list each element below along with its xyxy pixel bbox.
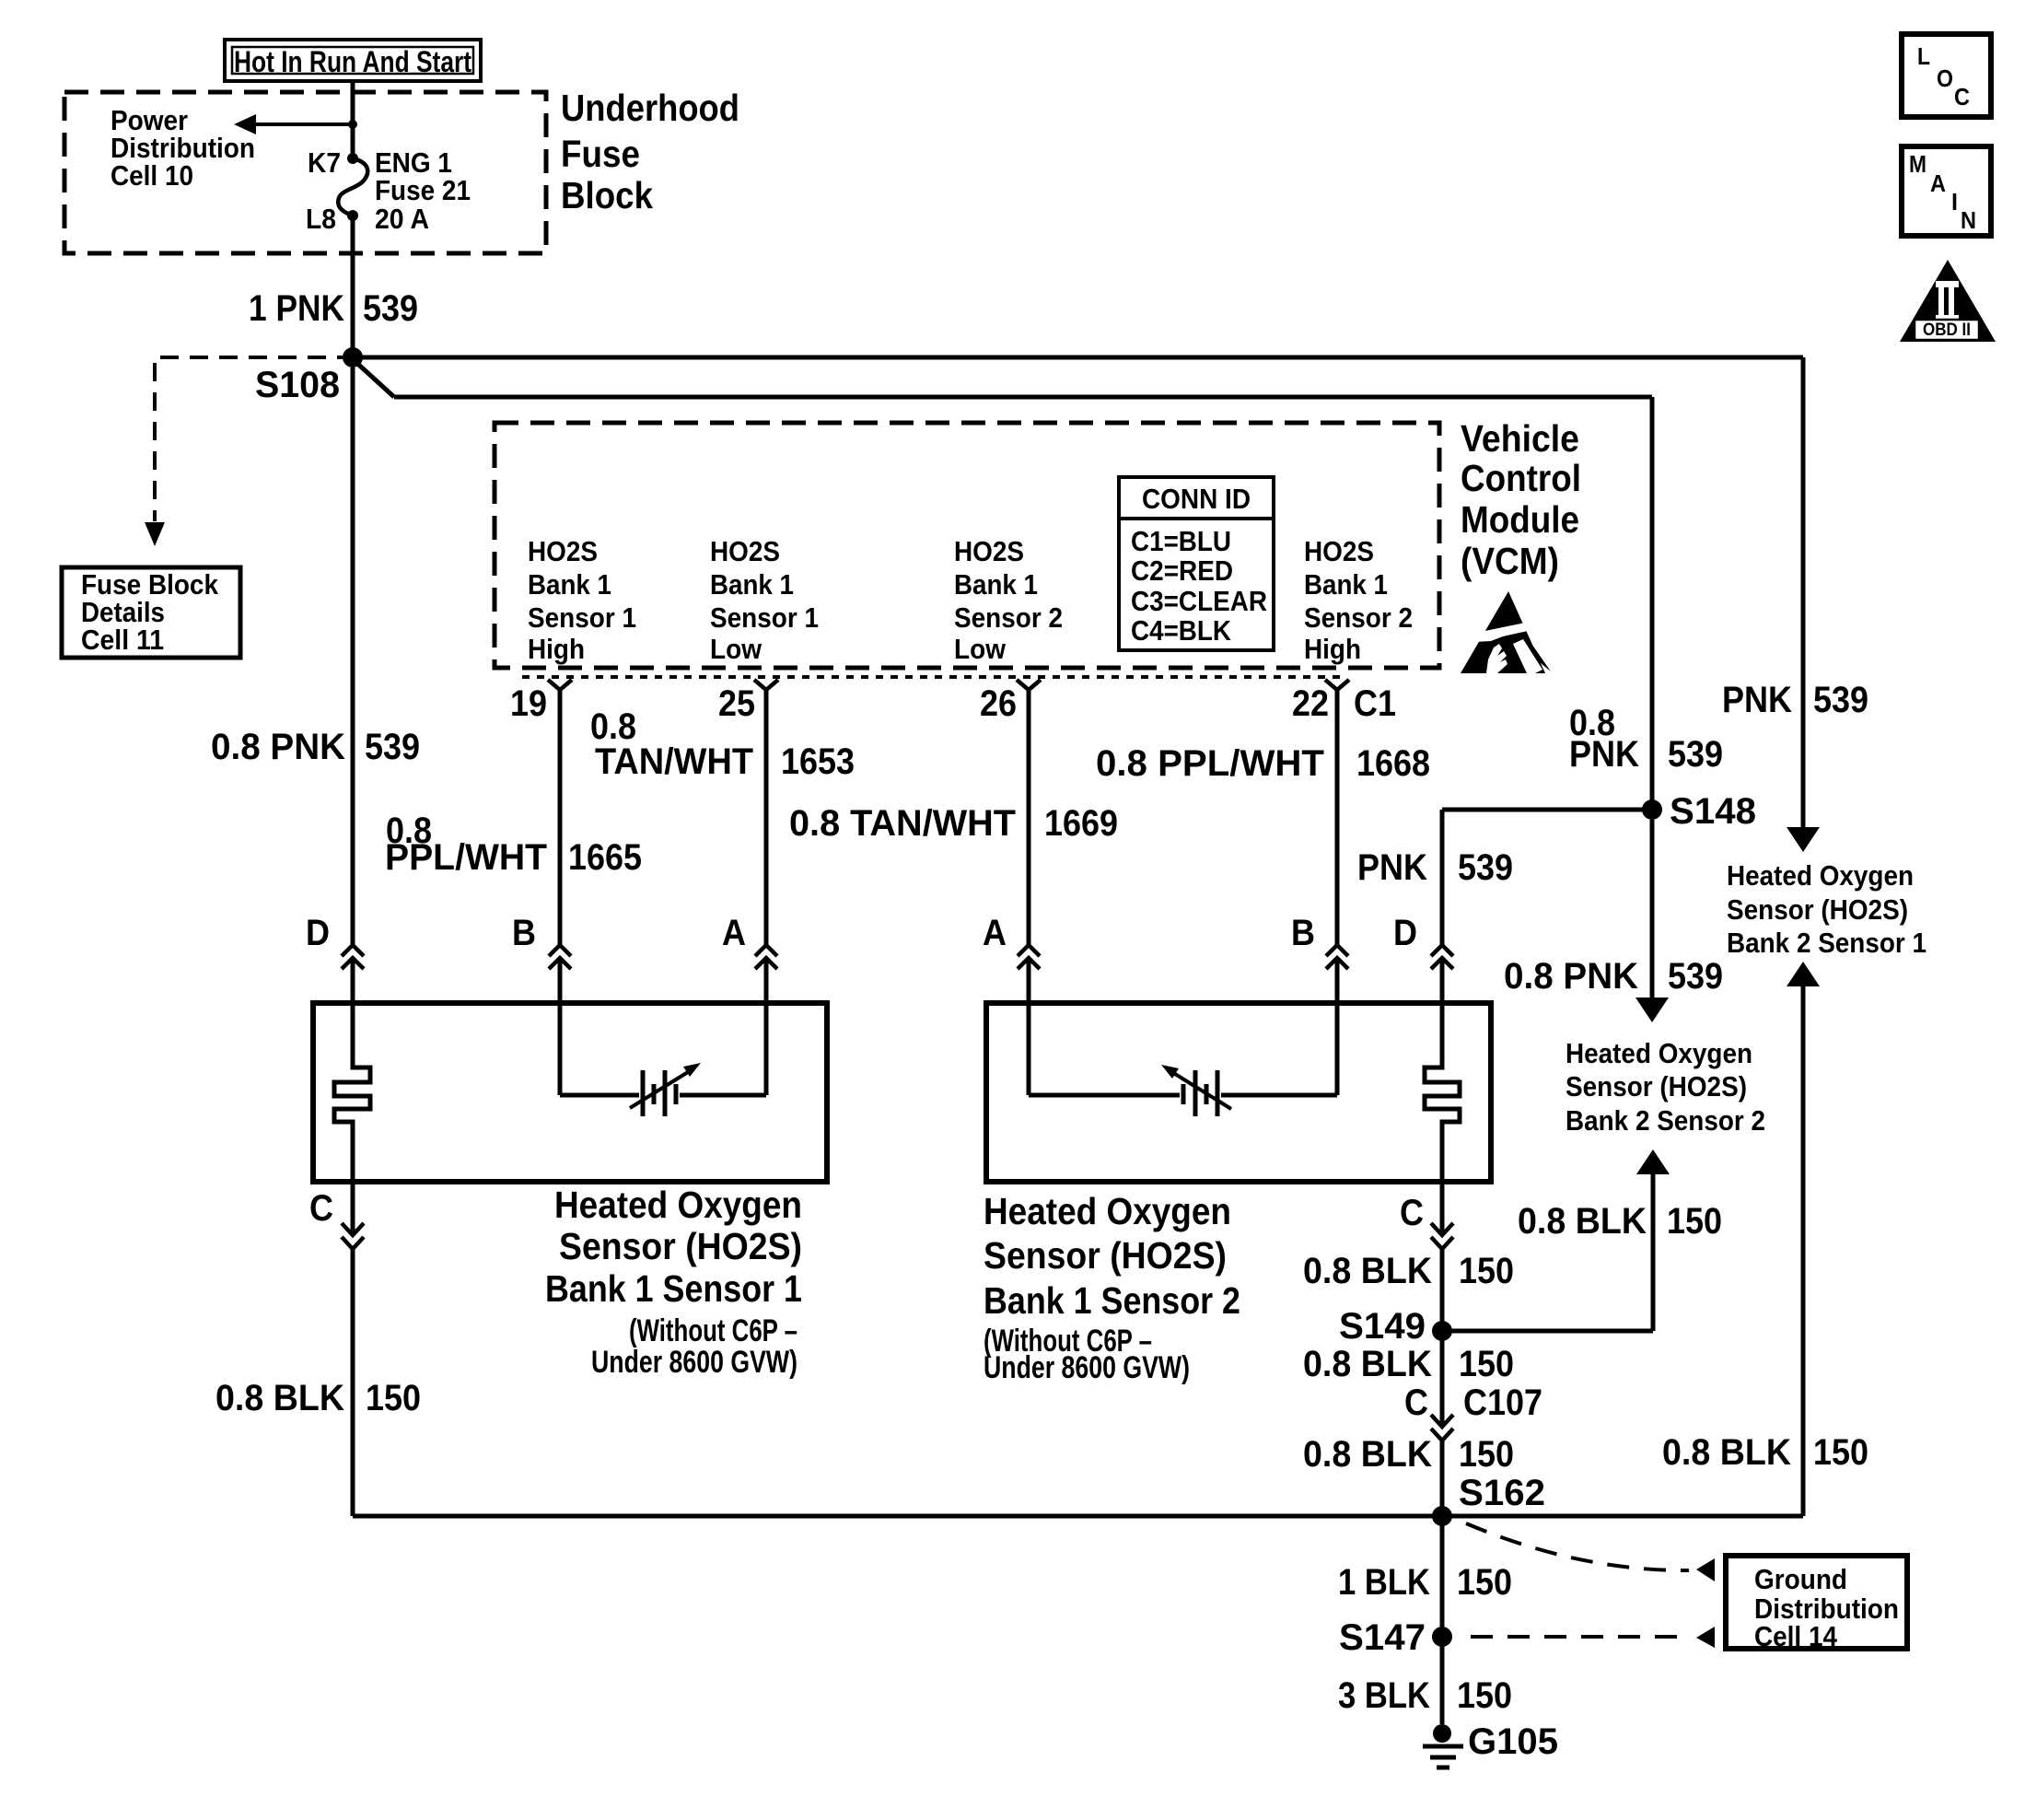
svg-text:HO2S: HO2S bbox=[710, 535, 780, 567]
svg-text:A: A bbox=[983, 913, 1007, 953]
label Underhood Fuse Block bbox=[561, 87, 739, 216]
variable arrow (sensor 2) bbox=[1161, 1065, 1231, 1109]
label 0.8 BLK 150 (bank 2 sensor 1 wire) bbox=[1662, 1432, 1868, 1473]
fuse ENG 1 Fuse 21 20 A bbox=[338, 158, 367, 216]
svg-text:Bank 1: Bank 1 bbox=[1304, 568, 1388, 601]
svg-text:539: 539 bbox=[1668, 956, 1723, 997]
svg-text:B: B bbox=[512, 913, 536, 953]
label 3 BLK 150 bbox=[1338, 1675, 1512, 1716]
label HO2S Bank 1 Sensor 2 Low bbox=[954, 535, 1063, 665]
svg-text:OBD II: OBD II bbox=[1923, 321, 1971, 340]
label 0.8 PPL/WHT 1665 bbox=[385, 811, 642, 878]
svg-text:Sensor (HO2S): Sensor (HO2S) bbox=[984, 1234, 1227, 1277]
svg-text:PPL/WHT: PPL/WHT bbox=[385, 837, 547, 878]
svg-text:A: A bbox=[1930, 169, 1946, 197]
svg-text:0.8 PNK: 0.8 PNK bbox=[211, 727, 345, 767]
label 0.8 PNK 539 (S148 wire) bbox=[1569, 703, 1723, 775]
heater element (sensor 1) bbox=[334, 958, 370, 1235]
svg-text:0.8 BLK: 0.8 BLK bbox=[1303, 1251, 1432, 1291]
svg-text:0.8 BLK: 0.8 BLK bbox=[1303, 1434, 1432, 1475]
label PNK 539 (sensor 2 pin D wire) bbox=[1357, 847, 1513, 888]
dashed leader to fuse block details bbox=[145, 357, 343, 546]
label C1 bbox=[1354, 683, 1396, 724]
arrow down to HO2S bank 2 sensor 2 bbox=[1635, 997, 1669, 1022]
wire 0.8 BLK 150 (sensor 1 ground) bbox=[351, 1249, 355, 1516]
connector pin B (sensor 1) bbox=[512, 913, 571, 969]
svg-text:PNK: PNK bbox=[1569, 734, 1639, 775]
svg-text:Bank 2 Sensor 2: Bank 2 Sensor 2 bbox=[1566, 1104, 1765, 1137]
svg-text:0.8 PPL/WHT: 0.8 PPL/WHT bbox=[1096, 743, 1324, 784]
svg-text:Heated Oxygen: Heated Oxygen bbox=[554, 1184, 802, 1226]
svg-text:Sensor (HO2S): Sensor (HO2S) bbox=[1727, 893, 1908, 926]
svg-text:3 BLK: 3 BLK bbox=[1338, 1675, 1430, 1716]
label 0.8 PPL/WHT 1668 bbox=[1096, 743, 1430, 784]
svg-text:Bank 1: Bank 1 bbox=[954, 568, 1038, 601]
svg-text:19: 19 bbox=[510, 683, 547, 724]
pin L8 bbox=[306, 203, 358, 235]
MAIN symbol bbox=[1902, 146, 1991, 236]
label 0.8 BLK 150 (below S149) bbox=[1303, 1344, 1514, 1384]
dashed leader S147 to ground distribution bbox=[1471, 1627, 1715, 1648]
svg-text:C: C bbox=[1954, 83, 1970, 111]
sense element wires (sensor 1) bbox=[560, 958, 766, 1095]
svg-text:Bank 1 Sensor 2: Bank 1 Sensor 2 bbox=[984, 1279, 1240, 1322]
svg-text:150: 150 bbox=[1813, 1432, 1868, 1473]
svg-text:539: 539 bbox=[365, 727, 420, 767]
label HO2S Bank 1 Sensor 1 High bbox=[528, 535, 636, 665]
svg-text:Cell 10: Cell 10 bbox=[111, 159, 193, 192]
wire pin 19 (0.8 PPL/WHT 1665) bbox=[558, 690, 563, 945]
svg-text:C2=RED: C2=RED bbox=[1131, 554, 1233, 587]
wire from bank 2 sensor 2 ground bbox=[1442, 1149, 1670, 1331]
label Vehicle Control Module (VCM) bbox=[1461, 417, 1581, 582]
connector pin C (sensor 1) bbox=[309, 1188, 364, 1249]
title box Hot In Run And Start bbox=[225, 40, 481, 81]
svg-text:1 PNK: 1 PNK bbox=[249, 288, 344, 329]
node S162 bbox=[1432, 1473, 1545, 1526]
svg-text:(Without C6P –: (Without C6P – bbox=[629, 1313, 797, 1348]
label 0.8 BLK 150 (left) bbox=[215, 1378, 421, 1418]
label 0.8 BLK 150 (below C107) bbox=[1303, 1434, 1514, 1475]
svg-text:C4=BLK: C4=BLK bbox=[1131, 614, 1232, 647]
connector C1 face line bbox=[522, 675, 1346, 679]
svg-text:C3=CLEAR: C3=CLEAR bbox=[1131, 585, 1267, 617]
svg-text:Hot In Run And Start: Hot In Run And Start bbox=[234, 45, 471, 78]
svg-text:(VCM): (VCM) bbox=[1461, 540, 1559, 582]
svg-text:539: 539 bbox=[363, 288, 418, 329]
svg-text:A: A bbox=[722, 913, 746, 953]
svg-text:C107: C107 bbox=[1463, 1382, 1542, 1423]
pin 25 bbox=[718, 680, 778, 724]
svg-text:CONN ID: CONN ID bbox=[1142, 483, 1251, 515]
svg-text:High: High bbox=[528, 633, 585, 665]
svg-text:Control: Control bbox=[1461, 457, 1581, 499]
pin 19 bbox=[510, 680, 572, 724]
svg-text:Module: Module bbox=[1461, 498, 1579, 541]
svg-text:PNK: PNK bbox=[1357, 847, 1427, 888]
svg-text:1669: 1669 bbox=[1044, 803, 1118, 844]
arrow down to HO2S bank 2 sensor 1 bbox=[1787, 827, 1820, 852]
bottom ground bus wire bbox=[353, 1514, 1442, 1519]
svg-text:22: 22 bbox=[1292, 683, 1329, 724]
svg-text:C: C bbox=[1400, 1193, 1424, 1233]
svg-text:Vehicle: Vehicle bbox=[1461, 417, 1579, 460]
svg-text:Under 8600 GVW): Under 8600 GVW) bbox=[984, 1350, 1190, 1385]
svg-text:Low: Low bbox=[710, 633, 762, 665]
wire S148 left to sensor 2 pin D bbox=[1442, 810, 1652, 945]
connector pin D (sensor 2) bbox=[1393, 913, 1453, 969]
svg-text:Ground: Ground bbox=[1754, 1563, 1847, 1595]
svg-text:Bank 1 Sensor 1: Bank 1 Sensor 1 bbox=[545, 1267, 802, 1310]
svg-text:S148: S148 bbox=[1670, 791, 1756, 832]
fuse block details box bbox=[62, 567, 240, 658]
wire from bank 2 sensor 1 ground bbox=[1442, 962, 1820, 1516]
label ENG 1 Fuse 21 20 A bbox=[375, 146, 471, 235]
wire 1 PNK 539 bbox=[351, 216, 355, 357]
svg-text:I: I bbox=[1951, 188, 1958, 216]
label Power Distribution Cell 10 bbox=[111, 104, 255, 192]
wire pin 22 (0.8 PPL/WHT 1668) bbox=[1335, 690, 1340, 945]
svg-text:Sensor (HO2S): Sensor (HO2S) bbox=[1566, 1070, 1747, 1102]
wire sensor 2 C to S149 bbox=[1440, 1249, 1445, 1427]
connector pin D (sensor 1) bbox=[306, 913, 364, 969]
svg-text:G105: G105 bbox=[1468, 1721, 1558, 1762]
svg-text:Fuse 21: Fuse 21 bbox=[375, 174, 471, 206]
svg-text:C1: C1 bbox=[1354, 683, 1396, 724]
junction dot bbox=[348, 120, 357, 129]
VCM dashed box bbox=[495, 423, 1439, 668]
svg-text:Heated Oxygen: Heated Oxygen bbox=[984, 1190, 1231, 1232]
svg-text:0.8 TAN/WHT: 0.8 TAN/WHT bbox=[789, 803, 1016, 844]
pin K7 bbox=[308, 146, 358, 179]
HO2S bank 1 sensor 1 box bbox=[313, 1003, 827, 1182]
svg-text:Sensor (HO2S): Sensor (HO2S) bbox=[559, 1225, 802, 1267]
label 0.8 PNK 539 (below S148) bbox=[1504, 956, 1723, 997]
svg-text:Heated Oxygen: Heated Oxygen bbox=[1727, 859, 1914, 892]
svg-text:S108: S108 bbox=[255, 365, 340, 405]
svg-text:PNK: PNK bbox=[1722, 680, 1792, 720]
svg-text:150: 150 bbox=[1459, 1251, 1514, 1291]
svg-text:Bank 1: Bank 1 bbox=[710, 568, 794, 601]
svg-text:C1=BLU: C1=BLU bbox=[1131, 525, 1231, 557]
heater element (sensor 2) bbox=[1425, 958, 1460, 1235]
svg-text:1668: 1668 bbox=[1356, 743, 1430, 784]
node S148 bbox=[1642, 791, 1756, 832]
svg-text:S147: S147 bbox=[1339, 1617, 1426, 1658]
svg-text:150: 150 bbox=[1457, 1562, 1512, 1603]
svg-text:TAN/WHT: TAN/WHT bbox=[595, 741, 753, 782]
connector pin B (sensor 2) bbox=[1291, 913, 1348, 969]
svg-text:25: 25 bbox=[718, 683, 755, 724]
svg-text:O: O bbox=[1937, 64, 1953, 92]
svg-text:539: 539 bbox=[1458, 847, 1513, 888]
svg-text:Sensor 2: Sensor 2 bbox=[1304, 601, 1413, 634]
label 0.8 BLK 150 (bank 2 sensor 2 wire) bbox=[1518, 1201, 1722, 1242]
svg-text:Low: Low bbox=[954, 633, 1007, 665]
svg-text:Sensor 1: Sensor 1 bbox=[710, 601, 819, 634]
svg-text:150: 150 bbox=[1667, 1201, 1722, 1242]
svg-text:539: 539 bbox=[1813, 680, 1868, 720]
svg-text:150: 150 bbox=[1459, 1434, 1514, 1475]
wire pin 25 (0.8 TAN/WHT 1653) bbox=[764, 690, 769, 945]
pin 26 bbox=[980, 680, 1041, 724]
wire pin 26 (0.8 TAN/WHT 1669) bbox=[1027, 690, 1031, 945]
svg-text:Heated Oxygen: Heated Oxygen bbox=[1566, 1037, 1752, 1069]
label Heated Oxygen Sensor (HO2S) Bank 1 Sensor 1 bbox=[545, 1184, 802, 1380]
svg-text:Underhood: Underhood bbox=[561, 87, 739, 129]
svg-text:1 BLK: 1 BLK bbox=[1338, 1562, 1430, 1603]
label 0.8 TAN/WHT 1669 bbox=[789, 803, 1118, 844]
ground G105 bbox=[1423, 1721, 1558, 1767]
svg-text:0.8 BLK: 0.8 BLK bbox=[1662, 1432, 1791, 1473]
svg-text:0.8 BLK: 0.8 BLK bbox=[215, 1378, 344, 1418]
svg-text:1665: 1665 bbox=[568, 837, 642, 878]
label Heated Oxygen Sensor (HO2S) Bank 2 Sensor 2 bbox=[1566, 1037, 1765, 1137]
wire S148 down to bank 2 sensor 2 bbox=[1650, 820, 1655, 997]
svg-text:Cell 14: Cell 14 bbox=[1754, 1620, 1838, 1652]
svg-text:K7: K7 bbox=[308, 146, 341, 179]
svg-text:HO2S: HO2S bbox=[954, 535, 1024, 567]
svg-text:D: D bbox=[1393, 913, 1417, 953]
svg-text:Block: Block bbox=[561, 174, 653, 216]
label Heated Oxygen Sensor (HO2S) Bank 2 Sensor 1 bbox=[1727, 859, 1926, 959]
svg-text:0.8 PNK: 0.8 PNK bbox=[1504, 956, 1638, 997]
svg-text:Under 8600 GVW): Under 8600 GVW) bbox=[591, 1345, 797, 1380]
label HO2S Bank 1 Sensor 1 Low bbox=[710, 535, 819, 665]
ground distribution box bbox=[1726, 1556, 1907, 1652]
HO2S bank 1 sensor 2 box bbox=[986, 1003, 1491, 1182]
pin 22 bbox=[1292, 680, 1349, 724]
variable arrow (sensor 1) bbox=[630, 1063, 701, 1108]
svg-text:HO2S: HO2S bbox=[1304, 535, 1374, 567]
label Heated Oxygen Sensor (HO2S) Bank 1 Sensor 2 bbox=[984, 1190, 1240, 1385]
arrow to power distribution bbox=[234, 114, 353, 134]
CONN ID table bbox=[1119, 477, 1274, 650]
svg-text:B: B bbox=[1291, 913, 1315, 953]
wire S108 diagonal branch bbox=[353, 359, 1652, 810]
svg-text:150: 150 bbox=[1457, 1675, 1512, 1716]
svg-text:0.8 BLK: 0.8 BLK bbox=[1518, 1201, 1647, 1242]
connector pin A (sensor 2) bbox=[983, 913, 1040, 969]
connector C C107 bbox=[1404, 1382, 1542, 1441]
sense element plates (sensor 2) bbox=[1183, 1070, 1217, 1116]
svg-text:0.8 BLK: 0.8 BLK bbox=[1303, 1344, 1432, 1384]
OBD II symbol bbox=[1900, 260, 1996, 342]
wire from Hot In Run to fuse bbox=[351, 81, 355, 158]
label 0.8 PNK 539 bbox=[211, 727, 420, 767]
sense element plates (sensor 1) bbox=[643, 1070, 676, 1116]
connector pin C (sensor 2) bbox=[1400, 1193, 1453, 1249]
label 1 BLK 150 bbox=[1338, 1562, 1512, 1603]
svg-text:C: C bbox=[309, 1188, 333, 1229]
svg-text:Bank 2 Sensor 1: Bank 2 Sensor 1 bbox=[1727, 927, 1926, 959]
svg-text:539: 539 bbox=[1668, 734, 1723, 775]
wire S108 to right (PNK 539 to bank 2 sensor 1) bbox=[353, 357, 1803, 827]
svg-text:1653: 1653 bbox=[781, 741, 855, 782]
svg-text:Fuse: Fuse bbox=[561, 133, 640, 175]
svg-text:Cell 11: Cell 11 bbox=[81, 624, 164, 656]
svg-text:Sensor 1: Sensor 1 bbox=[528, 601, 636, 634]
svg-text:HO2S: HO2S bbox=[528, 535, 598, 567]
node S147 bbox=[1339, 1617, 1452, 1658]
svg-text:C: C bbox=[1404, 1382, 1428, 1423]
label 0.8 BLK 150 (above S149) bbox=[1303, 1251, 1514, 1291]
svg-text:150: 150 bbox=[366, 1378, 421, 1418]
svg-text:26: 26 bbox=[980, 683, 1017, 724]
node S149 bbox=[1339, 1306, 1452, 1347]
wire C107 to G105 bbox=[1440, 1441, 1445, 1724]
underhood fuse block (dashed box) bbox=[64, 92, 546, 253]
connector pin A (sensor 1) bbox=[722, 913, 777, 969]
label HO2S Bank 1 Sensor 2 High bbox=[1304, 535, 1413, 665]
label 0.8 TAN/WHT 1653 bbox=[590, 706, 855, 782]
svg-text:High: High bbox=[1304, 633, 1361, 665]
svg-text:Sensor 2: Sensor 2 bbox=[954, 601, 1063, 634]
ESD symbol bbox=[1461, 591, 1551, 673]
svg-text:M: M bbox=[1909, 150, 1926, 178]
label PNK 539 (right wire) bbox=[1722, 680, 1868, 720]
node S108 bbox=[255, 347, 363, 405]
svg-text:Bank 1: Bank 1 bbox=[528, 568, 611, 601]
wire 0.8 PNK 539 (S108 to sensor 1 pin D) bbox=[351, 367, 355, 945]
svg-text:S149: S149 bbox=[1339, 1306, 1426, 1347]
svg-text:150: 150 bbox=[1459, 1344, 1514, 1384]
svg-text:L8: L8 bbox=[306, 203, 336, 235]
LOC symbol bbox=[1902, 34, 1991, 117]
svg-text:N: N bbox=[1961, 206, 1976, 234]
dashed leader S162 to ground distribution bbox=[1466, 1523, 1715, 1581]
svg-text:L: L bbox=[1917, 42, 1930, 70]
svg-text:20 A: 20 A bbox=[375, 203, 429, 235]
svg-text:S162: S162 bbox=[1459, 1473, 1545, 1513]
sense element wires (sensor 2) bbox=[1029, 958, 1337, 1095]
svg-text:D: D bbox=[306, 913, 330, 953]
label 1 PNK 539 bbox=[249, 288, 418, 329]
